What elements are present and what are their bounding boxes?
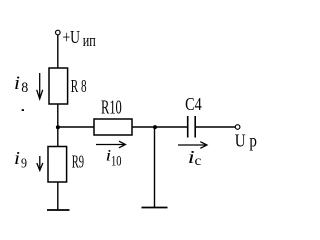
node B junction dot: [153, 125, 157, 129]
svg-text:9: 9: [21, 157, 27, 172]
current arrow i9: [37, 156, 43, 170]
current arrow i8: [37, 73, 43, 99]
wire node B to C4: [155, 126, 187, 128]
capacitor C4 left plate: [187, 116, 189, 138]
wire R10 to node B: [132, 126, 155, 128]
capacitor C4 right plate: [194, 116, 196, 138]
svg-text:R10: R10: [101, 96, 122, 118]
svg-text:U p: U p: [235, 130, 257, 150]
wire R9 to ground: [57, 182, 59, 210]
resistor R10: [94, 119, 132, 135]
resistor R9: [48, 147, 67, 183]
wire R8 to node A: [57, 104, 59, 147]
svg-text:R9: R9: [72, 151, 84, 171]
stray dot mark: [22, 109, 24, 111]
svg-text:c: c: [195, 154, 202, 169]
wire terminal to R8: [57, 35, 59, 68]
ground at node B: [142, 207, 168, 209]
node A junction dot: [56, 125, 60, 129]
svg-text:10: 10: [111, 154, 122, 170]
wire node B down to ground: [154, 127, 156, 208]
svg-text:R 8: R 8: [71, 76, 87, 96]
terminal +Uип circle: [56, 30, 61, 35]
svg-text:ип: ип: [83, 31, 96, 50]
wire C4 to output terminal: [196, 126, 235, 128]
current arrow ic: [178, 142, 207, 149]
svg-text:8: 8: [21, 80, 28, 96]
svg-text:i: i: [14, 73, 20, 94]
wire node A to R10: [58, 126, 94, 128]
output terminal circle: [235, 125, 240, 130]
svg-text:i: i: [14, 148, 20, 168]
ground below R9: [47, 209, 70, 211]
svg-text:+U: +U: [63, 27, 81, 47]
current arrow i10: [96, 141, 125, 148]
svg-text:C4: C4: [185, 94, 202, 114]
resistor R8: [49, 68, 68, 104]
